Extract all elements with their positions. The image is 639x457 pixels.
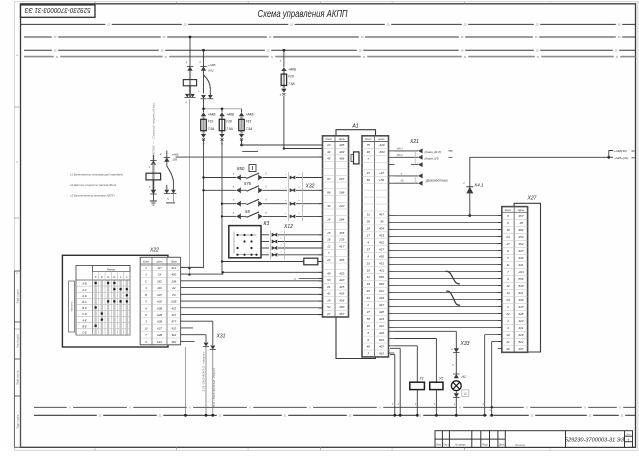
svg-text:Конт: Конт — [365, 137, 372, 141]
A1 bottom bracket — [336, 317, 376, 359]
connector X32 pin pair — [290, 214, 294, 218]
wire A1 pin to ground bus 2 — [390, 354, 395, 356]
title block form 2a — [435, 431, 633, 448]
svg-text:R: R — [101, 275, 103, 279]
bus wire 15a — [24, 49, 636, 51]
svg-text:437: 437 — [518, 249, 523, 253]
wire bundle A1-X27 row 11 — [395, 285, 502, 287]
svg-text:А2: А2 — [171, 286, 176, 290]
wire A1 to X33 lamp — [395, 330, 457, 332]
svg-text:840: 840 — [518, 284, 523, 288]
wire 284 vertical — [283, 50, 285, 67]
wire K1 grey band — [152, 164, 154, 194]
K1 bottom stub and bar — [172, 194, 174, 203]
svg-text:+АКБ: +АКБ — [208, 63, 216, 67]
svg-text:22: 22 — [505, 312, 510, 316]
svg-text:Цепь: Цепь — [157, 261, 163, 264]
wire to X32 — [263, 189, 287, 191]
connector pin arrow up fuse F19 — [201, 112, 206, 116]
svg-text:У1: У1 — [420, 376, 424, 380]
svg-text:А20: А20 — [156, 300, 162, 304]
svg-text:А2В: А2В — [156, 313, 162, 317]
svg-text:7.5А: 7.5А — [208, 127, 215, 131]
connector pin arrow up K1 wire — [152, 155, 154, 173]
svg-text:465: 465 — [339, 258, 344, 262]
svg-text:431: 431 — [379, 261, 384, 265]
svg-text:428: 428 — [518, 312, 523, 316]
A1 right pin stubs — [389, 151, 395, 353]
wire A1 to solenoid Y2 — [395, 338, 437, 340]
svg-text:432: 432 — [171, 306, 176, 310]
svg-text:17: 17 — [506, 242, 510, 246]
svg-text:10: 10 — [367, 261, 371, 265]
wire bundle A1-X27 row 16 — [395, 320, 502, 322]
svg-text:405: 405 — [339, 143, 344, 147]
switch blade — [247, 186, 260, 192]
ground wire from X22 box — [185, 347, 187, 415]
wire A1 to solenoid Y1 — [395, 345, 418, 347]
svg-text:403: 403 — [339, 150, 344, 154]
svg-text:ХА2: ХА2 — [207, 69, 214, 73]
connector pin arrows X31 — [204, 343, 209, 347]
device box X22 — [62, 255, 168, 347]
connector pin X21 y=150.9 — [395, 150, 419, 152]
device box X27 — [514, 203, 540, 352]
svg-text:Дата: Дата — [499, 444, 505, 447]
svg-text:х3 Выключатель режимов АКПП: х3 Выключатель режимов АКПП — [69, 194, 115, 198]
svg-text:850: 850 — [518, 277, 523, 281]
connector X32 pin pair — [290, 188, 294, 192]
svg-text:505008 — Серый-черный пр.: 505008 — Серый-черный пр. — [152, 102, 156, 160]
wire X27 row18 down to ground bus — [485, 334, 502, 336]
svg-text:+50: +50 — [379, 178, 384, 182]
svg-text:Конт: Конт — [325, 137, 332, 141]
svg-text:⊠: ⊠ — [464, 392, 467, 396]
wire X22 row7 to A1 — [181, 307, 323, 309]
svg-text:30: 30 — [327, 204, 331, 208]
connector pin X21 y=164.6 — [411, 164, 418, 166]
connector pin arrow up fuse F26 — [281, 67, 286, 71]
diode K4.1 — [466, 187, 473, 194]
svg-text:В-С: В-С — [82, 300, 87, 304]
svg-text:850: 850 — [379, 275, 384, 279]
svg-text:49: 49 — [327, 271, 331, 275]
svg-text:28: 28 — [326, 298, 331, 302]
wire X22 row5 to A1 — [181, 293, 323, 295]
svg-text:10: 10 — [144, 326, 148, 330]
svg-text:15: 15 — [367, 171, 371, 175]
wire X22 row6 to A1 — [181, 300, 323, 302]
connector pin arrow up lamp — [454, 374, 459, 378]
svg-text:267: 267 — [338, 177, 344, 181]
connector pin arrow down fuse F18 — [219, 134, 224, 138]
svg-text:х2 Датчик скорости автомобиля: х2 Датчик скорости автомобиля — [69, 183, 117, 187]
connector pin arrow down fuse F26 — [281, 89, 286, 93]
connector pin diag y=183.2 — [395, 182, 419, 184]
wire F26 down to A1 row2 — [283, 96, 285, 149]
svg-text:431: 431 — [379, 324, 384, 328]
svg-text:401: 401 — [157, 286, 162, 290]
wire to X32 — [263, 215, 287, 217]
wire 190 grey continuation down to X22 row wire — [188, 99, 190, 275]
battery terminal node — [607, 156, 610, 159]
svg-text:Х12: Х12 — [283, 224, 293, 230]
svg-text:Диагностика: Диагностика — [425, 179, 448, 183]
wire F15 down to wire 23 — [241, 139, 243, 146]
switch blade — [247, 199, 260, 205]
wire X22 row12 stub — [181, 340, 195, 342]
wire bundle A1-X27 row 6 — [395, 250, 502, 252]
svg-text:А: А — [144, 306, 147, 310]
svg-text:46: 46 — [367, 150, 371, 154]
K3 output row y=248 — [261, 247, 269, 249]
ground symbol — [150, 200, 157, 202]
svg-text:455: 455 — [339, 231, 344, 235]
svg-text:12: 12 — [506, 284, 510, 288]
svg-text:Цепь: Цепь — [378, 137, 385, 141]
svg-text:3Х: 3Х — [158, 273, 162, 277]
svg-text:34: 34 — [367, 282, 371, 286]
svg-text:х1 Включатель понижающей пере: х1 Включатель понижающей передачи — [69, 172, 123, 176]
svg-text:432: 432 — [171, 326, 176, 330]
wire F15 to A1 pin 23 — [242, 144, 323, 146]
svg-text:450: 450 — [339, 305, 344, 309]
ECU connector table X27 — [502, 207, 528, 353]
svg-text:К4.1: К4.1 — [475, 183, 485, 188]
svg-text:F19: F19 — [208, 120, 214, 124]
svg-text:235: 235 — [338, 238, 344, 242]
selector mode matrix table — [76, 266, 130, 336]
svg-text:911: 911 — [519, 291, 524, 295]
svg-text:+АКБ(30): +АКБ(30) — [614, 149, 627, 153]
K1 contact blade — [167, 166, 174, 181]
svg-text:430: 430 — [518, 256, 523, 260]
svg-text:МК-2: МК-2 — [397, 154, 403, 157]
svg-text:433: 433 — [379, 296, 384, 300]
svg-text:А27: А27 — [156, 326, 162, 330]
relay K3 box — [229, 226, 261, 258]
svg-text:24: 24 — [326, 258, 331, 262]
svg-text:423: 423 — [518, 319, 523, 323]
group break mark 1 — [446, 271, 460, 284]
wire diode down to bundle — [469, 193, 471, 215]
fuse feeder junction wire — [204, 108, 242, 110]
svg-text:F15: F15 — [246, 120, 252, 124]
svg-text:+15: +15 — [379, 171, 384, 175]
svg-text:МК-1: МК-1 — [397, 147, 403, 150]
lamp H1 — [451, 381, 461, 391]
wire bundle A1-X27 row 2 — [395, 222, 502, 224]
svg-text:7.5А: 7.5А — [288, 82, 295, 86]
svg-text:Р4: Р4 — [172, 293, 176, 297]
svg-text:429: 429 — [379, 331, 384, 335]
svg-text:Х22: Х22 — [149, 248, 159, 254]
svg-text:В-D: В-D — [82, 306, 87, 310]
connector pin arrow up fuse F15 — [239, 112, 244, 116]
switch row at y=190.3 — [204, 189, 237, 191]
svg-text:D: D — [113, 275, 115, 279]
svg-text:А2В: А2В — [170, 300, 176, 304]
connector pin arrow down fuse F15 — [239, 134, 244, 138]
svg-text:F26: F26 — [288, 75, 294, 79]
svg-text:55: 55 — [245, 209, 250, 214]
svg-text:А-С: А-С — [81, 288, 87, 292]
svg-text:А2В: А2В — [156, 320, 162, 324]
switch row at y=216.4 — [222, 215, 236, 217]
wire X33 to lamp — [455, 353, 457, 375]
wire X22 row8 to A1 — [181, 313, 323, 315]
svg-text:С-D: С-D — [82, 312, 87, 316]
svg-text:А-В: А-В — [81, 282, 87, 286]
svg-text:Конт: Конт — [505, 208, 512, 212]
X22 pin table — [140, 257, 180, 345]
svg-text:220: 220 — [338, 204, 344, 208]
switch row at y=203.7 — [222, 203, 236, 205]
svg-text:-421: -421 — [518, 270, 524, 274]
svg-text:407: 407 — [379, 345, 384, 349]
svg-text:7.5А: 7.5А — [226, 127, 233, 131]
svg-text:24: 24 — [505, 235, 510, 239]
svg-text:447: 447 — [171, 313, 176, 317]
connector pin arrow X33 — [454, 348, 459, 352]
svg-text:75: 75 — [367, 143, 371, 147]
svg-text:410: 410 — [379, 352, 384, 356]
wire with resistor R2 to A1 — [221, 261, 303, 263]
svg-text:+АКБ: +АКБ — [288, 68, 296, 72]
svg-text:266: 266 — [338, 190, 344, 194]
connector pin arrow up X190 — [187, 67, 192, 71]
svg-text:У2: У2 — [439, 376, 443, 380]
wire bundle A1-X27 row 9 — [395, 271, 502, 273]
node bus15a-284 — [283, 49, 286, 52]
wire 190 vertical — [189, 37, 191, 80]
svg-text:10: 10 — [506, 228, 510, 232]
bus wire 30 — [24, 36, 636, 38]
svg-text:+АКБ: +АКБ — [226, 113, 234, 117]
wire 203 vertical top — [203, 50, 205, 67]
K3 output row y=241.5 — [261, 241, 269, 243]
svg-text:433: 433 — [518, 298, 523, 302]
svg-text:N: N — [107, 275, 109, 279]
svg-text:Х31: Х31 — [216, 334, 226, 340]
svg-text:42: 42 — [327, 292, 331, 296]
X21 strip line — [414, 151, 416, 165]
wire bundle A1-X27 row 5 — [395, 243, 502, 245]
svg-text:912: 912 — [171, 266, 176, 270]
wire 203 middle — [203, 71, 205, 94]
svg-text:Х33: Х33 — [460, 341, 470, 347]
ECU connector table A1 right — [362, 136, 389, 357]
svg-text:264: 264 — [338, 217, 344, 221]
bus wire 15 top — [21, 23, 636, 25]
wire X22 row10 stub — [181, 327, 193, 329]
svg-text:575: 575 — [244, 181, 252, 186]
matrix dots — [94, 282, 97, 285]
stub wire to A1 — [299, 278, 323, 280]
fuse F26 — [283, 71, 285, 89]
group break mark 2 — [446, 291, 460, 305]
svg-text:-35: -35 — [379, 220, 384, 224]
svg-text:32: 32 — [367, 324, 371, 328]
svg-text:822: 822 — [379, 338, 384, 342]
wire A1 pin to ground bus 1 — [390, 347, 400, 349]
wire 190 below coil — [189, 86, 191, 97]
connector X32 pin pair — [290, 202, 294, 206]
ignition switch curve — [204, 75, 211, 89]
svg-text:Конт: Конт — [143, 261, 149, 264]
svg-text:11: 11 — [367, 275, 370, 279]
svg-text:14: 14 — [506, 291, 510, 295]
svg-text:45: 45 — [327, 157, 331, 161]
svg-text:Подп. и дата: Подп. и дата — [17, 414, 20, 429]
svg-text:Контакты: Контакты — [71, 301, 74, 312]
wire bundle A1-X27 row 12 — [395, 292, 502, 294]
wire bundle A1-X27 row 3 — [395, 229, 502, 231]
wire bundle A1-X27 row 8 — [395, 264, 502, 266]
svg-text:404: 404 — [379, 227, 384, 231]
svg-text:50: 50 — [327, 278, 331, 282]
connector pin arrows down 203/210 — [201, 95, 206, 99]
connector pin arrow up fuse F18 — [219, 112, 224, 116]
wire X22 row11 to X31 — [181, 334, 206, 336]
connector X12 strip lines — [270, 231, 272, 260]
switch row at y=177.5 — [204, 177, 237, 179]
svg-text:67: 67 — [327, 177, 331, 181]
svg-text:27: 27 — [366, 310, 371, 314]
svg-text:52: 52 — [327, 305, 331, 309]
svg-text:452: 452 — [518, 242, 523, 246]
wire 190-A1 row — [223, 271, 323, 273]
svg-text:30: 30 — [367, 220, 371, 224]
svg-text:482: 482 — [171, 340, 176, 344]
svg-text:406: 406 — [339, 157, 344, 161]
svg-text:44: 44 — [327, 150, 331, 154]
svg-text:2: 2 — [366, 303, 369, 307]
wire F26 to A1 pin 44 — [284, 148, 323, 150]
svg-text:452: 452 — [379, 240, 384, 244]
svg-text:В-Е: В-Е — [82, 324, 87, 328]
svg-text:«АКБ»(31): «АКБ»(31) — [614, 156, 628, 160]
wire bundle A1-X27 row 15 — [395, 313, 502, 315]
connector X32 strip lines — [288, 172, 290, 222]
svg-text:С-Е: С-Е — [82, 331, 87, 335]
K3 contact dots — [236, 234, 238, 236]
svg-text:Лист: Лист — [626, 434, 631, 436]
svg-text:17: 17 — [367, 234, 371, 238]
X31 wires down to ground bus — [205, 347, 207, 416]
svg-text:23: 23 — [326, 143, 331, 147]
zone tick marks — [14, 2, 464, 451]
connector X32 pin pair — [290, 176, 294, 180]
svg-text:Подп. и дата: Подп. и дата — [17, 289, 20, 304]
op block A1 top bracket — [336, 130, 376, 136]
svg-text:911: 911 — [379, 289, 384, 293]
lamp icon box — [462, 390, 469, 397]
fuse F15 — [240, 116, 242, 134]
wire 190 grey band — [189, 71, 191, 97]
svg-text:+АКБ: +АКБ — [208, 113, 216, 117]
rotated label cell — [69, 281, 75, 332]
switch blade — [247, 212, 260, 218]
svg-text:20: 20 — [505, 347, 510, 351]
svg-text:57: 57 — [367, 247, 371, 251]
svg-text:404: 404 — [518, 228, 523, 232]
connector pin X21 y=157.3 — [395, 156, 419, 158]
wire X22 row1 up to F19 — [181, 266, 203, 268]
svg-text:403: 403 — [339, 271, 344, 275]
svg-text:21: 21 — [326, 285, 331, 289]
svg-text:63: 63 — [367, 296, 371, 300]
svg-text:F18: F18 — [226, 120, 232, 124]
wire below resistor — [152, 180, 154, 201]
top-left inverted document number stamp — [21, 5, 96, 17]
fuse F18 — [221, 116, 223, 134]
svg-text:453: 453 — [379, 234, 384, 238]
svg-text:А2В: А2В — [156, 306, 162, 310]
svg-text:922: 922 — [171, 333, 176, 337]
svg-text:282: 282 — [156, 279, 162, 283]
switch blade — [247, 173, 260, 179]
svg-text:16: 16 — [367, 268, 371, 272]
svg-text:457: 457 — [518, 214, 523, 218]
wire X22 row4 to A1 — [181, 287, 323, 289]
connector pin arrow below lamp — [454, 393, 459, 397]
svg-text:-35: -35 — [519, 221, 524, 225]
wire bundle A1-X27 row 13 — [395, 299, 502, 301]
wire X22 row2 to F18 — [181, 273, 223, 275]
svg-text:2: 2 — [144, 273, 147, 277]
svg-text:-50: -50 — [400, 180, 404, 183]
svg-text:453: 453 — [518, 235, 523, 239]
svg-text:31-504002 бел: 31-504002 бел — [213, 367, 216, 408]
wire X22 row9 to X31 — [181, 320, 213, 322]
resistor R1 box — [146, 173, 161, 180]
svg-text:66: 66 — [327, 190, 331, 194]
svg-text:А07: А07 — [156, 293, 162, 297]
svg-text:1АА: 1АА — [157, 340, 162, 344]
wire F19 down to X22 row1 — [203, 139, 205, 269]
bottom bus wire upper — [34, 406, 636, 408]
svg-text:+АКБ: +АКБ — [172, 153, 179, 157]
left margin stamp column — [14, 271, 20, 447]
svg-text:431: 431 — [518, 326, 523, 330]
svg-text:16: 16 — [327, 238, 331, 242]
svg-text:29: 29 — [366, 227, 371, 231]
svg-text:Пров: Пров — [171, 261, 177, 264]
svg-text:(диагн.)(Л): (диагн.)(Л) — [425, 156, 439, 160]
svg-text:977: 977 — [171, 320, 176, 324]
svg-text:529230-3700003-31 ЭЗ: 529230-3700003-31 ЭЗ — [24, 6, 91, 13]
svg-text:Цепь: Цепь — [339, 137, 346, 141]
svg-text:Режим: Режим — [107, 267, 115, 271]
svg-text:Х27: Х27 — [527, 196, 537, 202]
svg-text:58: 58 — [367, 317, 371, 321]
connector pin arrows down 190 — [185, 94, 189, 98]
svg-text:27: 27 — [326, 312, 331, 316]
wire to X32 — [263, 203, 287, 205]
svg-text:529230-3700003-31 ЭЗ: 529230-3700003-31 ЭЗ — [565, 437, 625, 443]
wire diode up and right to battery terminals — [470, 157, 609, 187]
connector pin arrows down K1 — [164, 190, 169, 194]
fuse F19 — [202, 116, 204, 134]
svg-text:К3: К3 — [264, 221, 270, 227]
svg-text:430: 430 — [379, 254, 384, 258]
svg-text:-105: -105 — [172, 158, 178, 162]
svg-text:31: 31 — [367, 213, 371, 217]
svg-text:№ докум.: № докум. — [455, 444, 466, 447]
svg-text:А-Е: А-Е — [81, 318, 87, 322]
svg-text:Подп.: Подп. — [482, 444, 489, 447]
